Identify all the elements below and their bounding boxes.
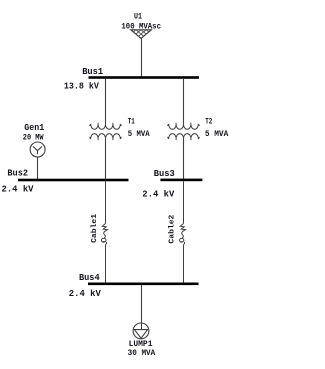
utility U1 power grid symbol <box>131 30 152 39</box>
svg-text:30 MVA: 30 MVA <box>128 349 156 358</box>
bus Bus4 <box>88 283 199 286</box>
svg-text:13.8 kV: 13.8 kV <box>64 80 99 91</box>
svg-text:T1: T1 <box>128 118 135 127</box>
cable Cable2 <box>180 181 186 282</box>
wire T1 to Bus2 <box>105 139 107 179</box>
cable Cable1 <box>101 181 107 282</box>
svg-text:2.4 kV: 2.4 kV <box>142 189 174 200</box>
svg-text:2.4 kV: 2.4 kV <box>2 184 34 195</box>
bus Bus2 <box>18 179 129 182</box>
svg-text:2.4 kV: 2.4 kV <box>69 288 101 299</box>
wire T2 to Bus3 <box>183 139 185 179</box>
svg-text:Bus4: Bus4 <box>79 272 100 283</box>
wire U1 to Bus1 <box>141 38 143 76</box>
svg-text:U1: U1 <box>134 12 142 22</box>
transformer T2 <box>168 123 199 140</box>
svg-text:20 MW: 20 MW <box>23 134 44 143</box>
transformer T1 <box>90 123 121 140</box>
svg-text:5 MVA: 5 MVA <box>205 130 229 139</box>
wire Bus1 to T2 <box>183 79 185 125</box>
svg-text:Cable1: Cable1 <box>91 213 99 243</box>
wire Bus1 to T1 <box>105 79 107 125</box>
svg-text:5 MVA: 5 MVA <box>128 130 150 139</box>
bus Bus3 <box>160 179 202 182</box>
wire Bus4 to LUMP1 <box>141 285 143 330</box>
wire Gen1 to Bus2 <box>37 157 39 179</box>
svg-text:Bus1: Bus1 <box>82 66 103 77</box>
svg-text:T2: T2 <box>205 118 212 127</box>
generator Gen1 <box>30 142 45 157</box>
svg-text:Gen1: Gen1 <box>24 122 44 133</box>
lumped load LUMP1 <box>133 323 149 339</box>
bus Bus1 <box>89 76 200 79</box>
svg-text:Cable2: Cable2 <box>168 214 176 244</box>
svg-text:Bus3: Bus3 <box>154 168 175 179</box>
svg-text:LUMP1: LUMP1 <box>129 339 153 349</box>
svg-text:Bus2: Bus2 <box>7 168 28 179</box>
